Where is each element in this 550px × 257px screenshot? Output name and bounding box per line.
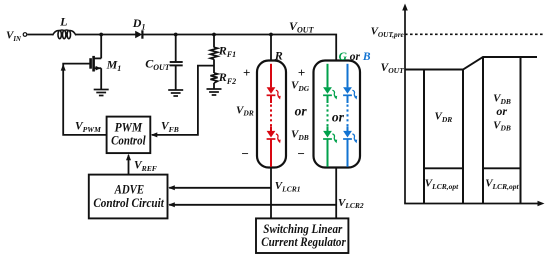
arrow into gate bbox=[61, 64, 66, 71]
LED D-G1 bbox=[323, 64, 337, 100]
inductor L bbox=[53, 30, 76, 39]
label R bbox=[274, 49, 283, 63]
LED D-B2 bbox=[343, 131, 357, 167]
label VREF bbox=[134, 159, 157, 173]
label D1 bbox=[132, 16, 146, 32]
graph bar R bbox=[424, 70, 463, 204]
svg-text:−: − bbox=[241, 146, 249, 161]
svg-text:+: + bbox=[298, 65, 305, 80]
arrow VFB into PWM bbox=[151, 132, 157, 137]
label plus GB bbox=[298, 65, 305, 80]
svg-text:Current Regulator: Current Regulator bbox=[261, 235, 346, 249]
label VFB bbox=[161, 121, 179, 135]
label or inside GB bbox=[332, 109, 345, 124]
graph dashed VOUT,pre level bbox=[405, 33, 543, 35]
node R-string junction bbox=[269, 33, 273, 37]
terminal VIN bbox=[23, 33, 27, 37]
svg-text:Control: Control bbox=[111, 134, 146, 148]
label or graph bbox=[496, 104, 507, 118]
wire dotted G ellipsis bbox=[327, 95, 329, 131]
LED D-B1 bbox=[343, 64, 357, 100]
LED string GB outline bbox=[314, 61, 361, 168]
LED D-R1 bbox=[267, 64, 281, 100]
svg-text:Control Circuit: Control Circuit bbox=[93, 196, 164, 210]
label VDR graph bbox=[435, 111, 453, 124]
wire M1 gate to VPWM bbox=[63, 64, 107, 135]
label VPWM bbox=[75, 121, 101, 135]
svg-text:or: or bbox=[496, 104, 507, 118]
wire VREF bbox=[128, 155, 130, 174]
graph bar GB bbox=[483, 57, 521, 203]
arrow VREF into PWM bbox=[126, 154, 131, 160]
svg-text:L: L bbox=[59, 15, 67, 29]
label VDG bbox=[291, 79, 310, 92]
svg-text:ADVE: ADVE bbox=[114, 183, 144, 197]
wire rail to RF1 bbox=[213, 35, 215, 48]
label G or B bbox=[339, 51, 371, 63]
label minus R bbox=[241, 146, 249, 161]
svg-text:−: − bbox=[297, 146, 305, 161]
wire VLCR1 bbox=[169, 187, 271, 189]
wire COUT top bbox=[175, 35, 177, 62]
LED string R outline bbox=[257, 61, 286, 168]
svg-text:or: or bbox=[332, 109, 345, 124]
label VLCR,opt GB bbox=[485, 178, 519, 191]
label VDB bbox=[291, 129, 309, 142]
label VOUT bbox=[289, 19, 315, 35]
diode D1 bbox=[135, 30, 142, 38]
ADVE control block bbox=[89, 175, 168, 219]
label VDB graph blue bbox=[493, 119, 511, 132]
resistor RF1 bbox=[210, 47, 217, 59]
wire VOUT rail bbox=[142, 35, 336, 61]
label VOUT axis bbox=[381, 62, 405, 75]
LED D-R2 bbox=[267, 131, 281, 167]
LED D-G2 bbox=[323, 131, 337, 167]
label plus R bbox=[243, 65, 250, 80]
label VIN bbox=[6, 29, 22, 42]
arrow VLCR1 into ADVE bbox=[168, 185, 174, 190]
ground COUT bbox=[168, 90, 183, 96]
wire COUT bottom bbox=[175, 65, 177, 90]
wire R string to regulator bbox=[270, 168, 272, 219]
wire VIN to L bbox=[27, 34, 53, 36]
ground M1 bbox=[94, 90, 109, 96]
label RF2 bbox=[218, 70, 236, 86]
wire dotted B ellipsis bbox=[347, 95, 349, 131]
svg-text:G or B: G or B bbox=[339, 51, 371, 63]
graph y-axis bbox=[402, 4, 408, 204]
graph VOUT step line bbox=[405, 57, 537, 70]
svg-text:or: or bbox=[295, 104, 308, 119]
label RF1 bbox=[218, 44, 236, 60]
PWM control block bbox=[107, 117, 151, 154]
node COUT junction bbox=[174, 33, 178, 37]
wire L to D1 bbox=[75, 34, 135, 36]
wire RF2 to ground bbox=[213, 83, 215, 89]
switching linear current regulator block bbox=[256, 218, 348, 253]
label VDR bbox=[236, 104, 254, 117]
wire GB string to regulator bbox=[335, 168, 337, 219]
label VLCR1 bbox=[275, 180, 301, 193]
svg-text:R: R bbox=[274, 49, 283, 63]
label VOUT,pre bbox=[371, 26, 405, 39]
label or between VDG VDB bbox=[295, 104, 308, 119]
wire VLCR2 bbox=[169, 204, 336, 206]
wire rail to M1 drain bbox=[100, 35, 102, 59]
svg-text:+: + bbox=[243, 65, 250, 80]
svg-text:PWM: PWM bbox=[115, 120, 143, 134]
label minus GB bbox=[297, 146, 305, 161]
label VLCR2 bbox=[338, 197, 364, 210]
node drain junction bbox=[99, 33, 103, 37]
node RF1 junction bbox=[212, 33, 216, 37]
transistor M1 bbox=[91, 56, 102, 72]
ground RF2 bbox=[207, 89, 222, 95]
wire VFB from divider to PWM bbox=[152, 66, 214, 135]
label M1 bbox=[106, 57, 122, 73]
graph x-axis bbox=[404, 201, 544, 207]
label L bbox=[59, 15, 67, 29]
capacitor COUT bbox=[170, 62, 183, 65]
label COUT bbox=[145, 57, 171, 73]
wire RF1 to RF2 bbox=[213, 59, 215, 73]
wire dotted R ellipsis bbox=[270, 95, 272, 131]
label VLCR,opt R bbox=[425, 178, 459, 191]
wire M1 source to ground bbox=[100, 68, 102, 89]
arrow VLCR2 into ADVE bbox=[168, 202, 174, 207]
resistor RF2 bbox=[210, 73, 217, 83]
wire rail to R string bbox=[270, 35, 272, 61]
label VDB graph green bbox=[493, 92, 511, 105]
